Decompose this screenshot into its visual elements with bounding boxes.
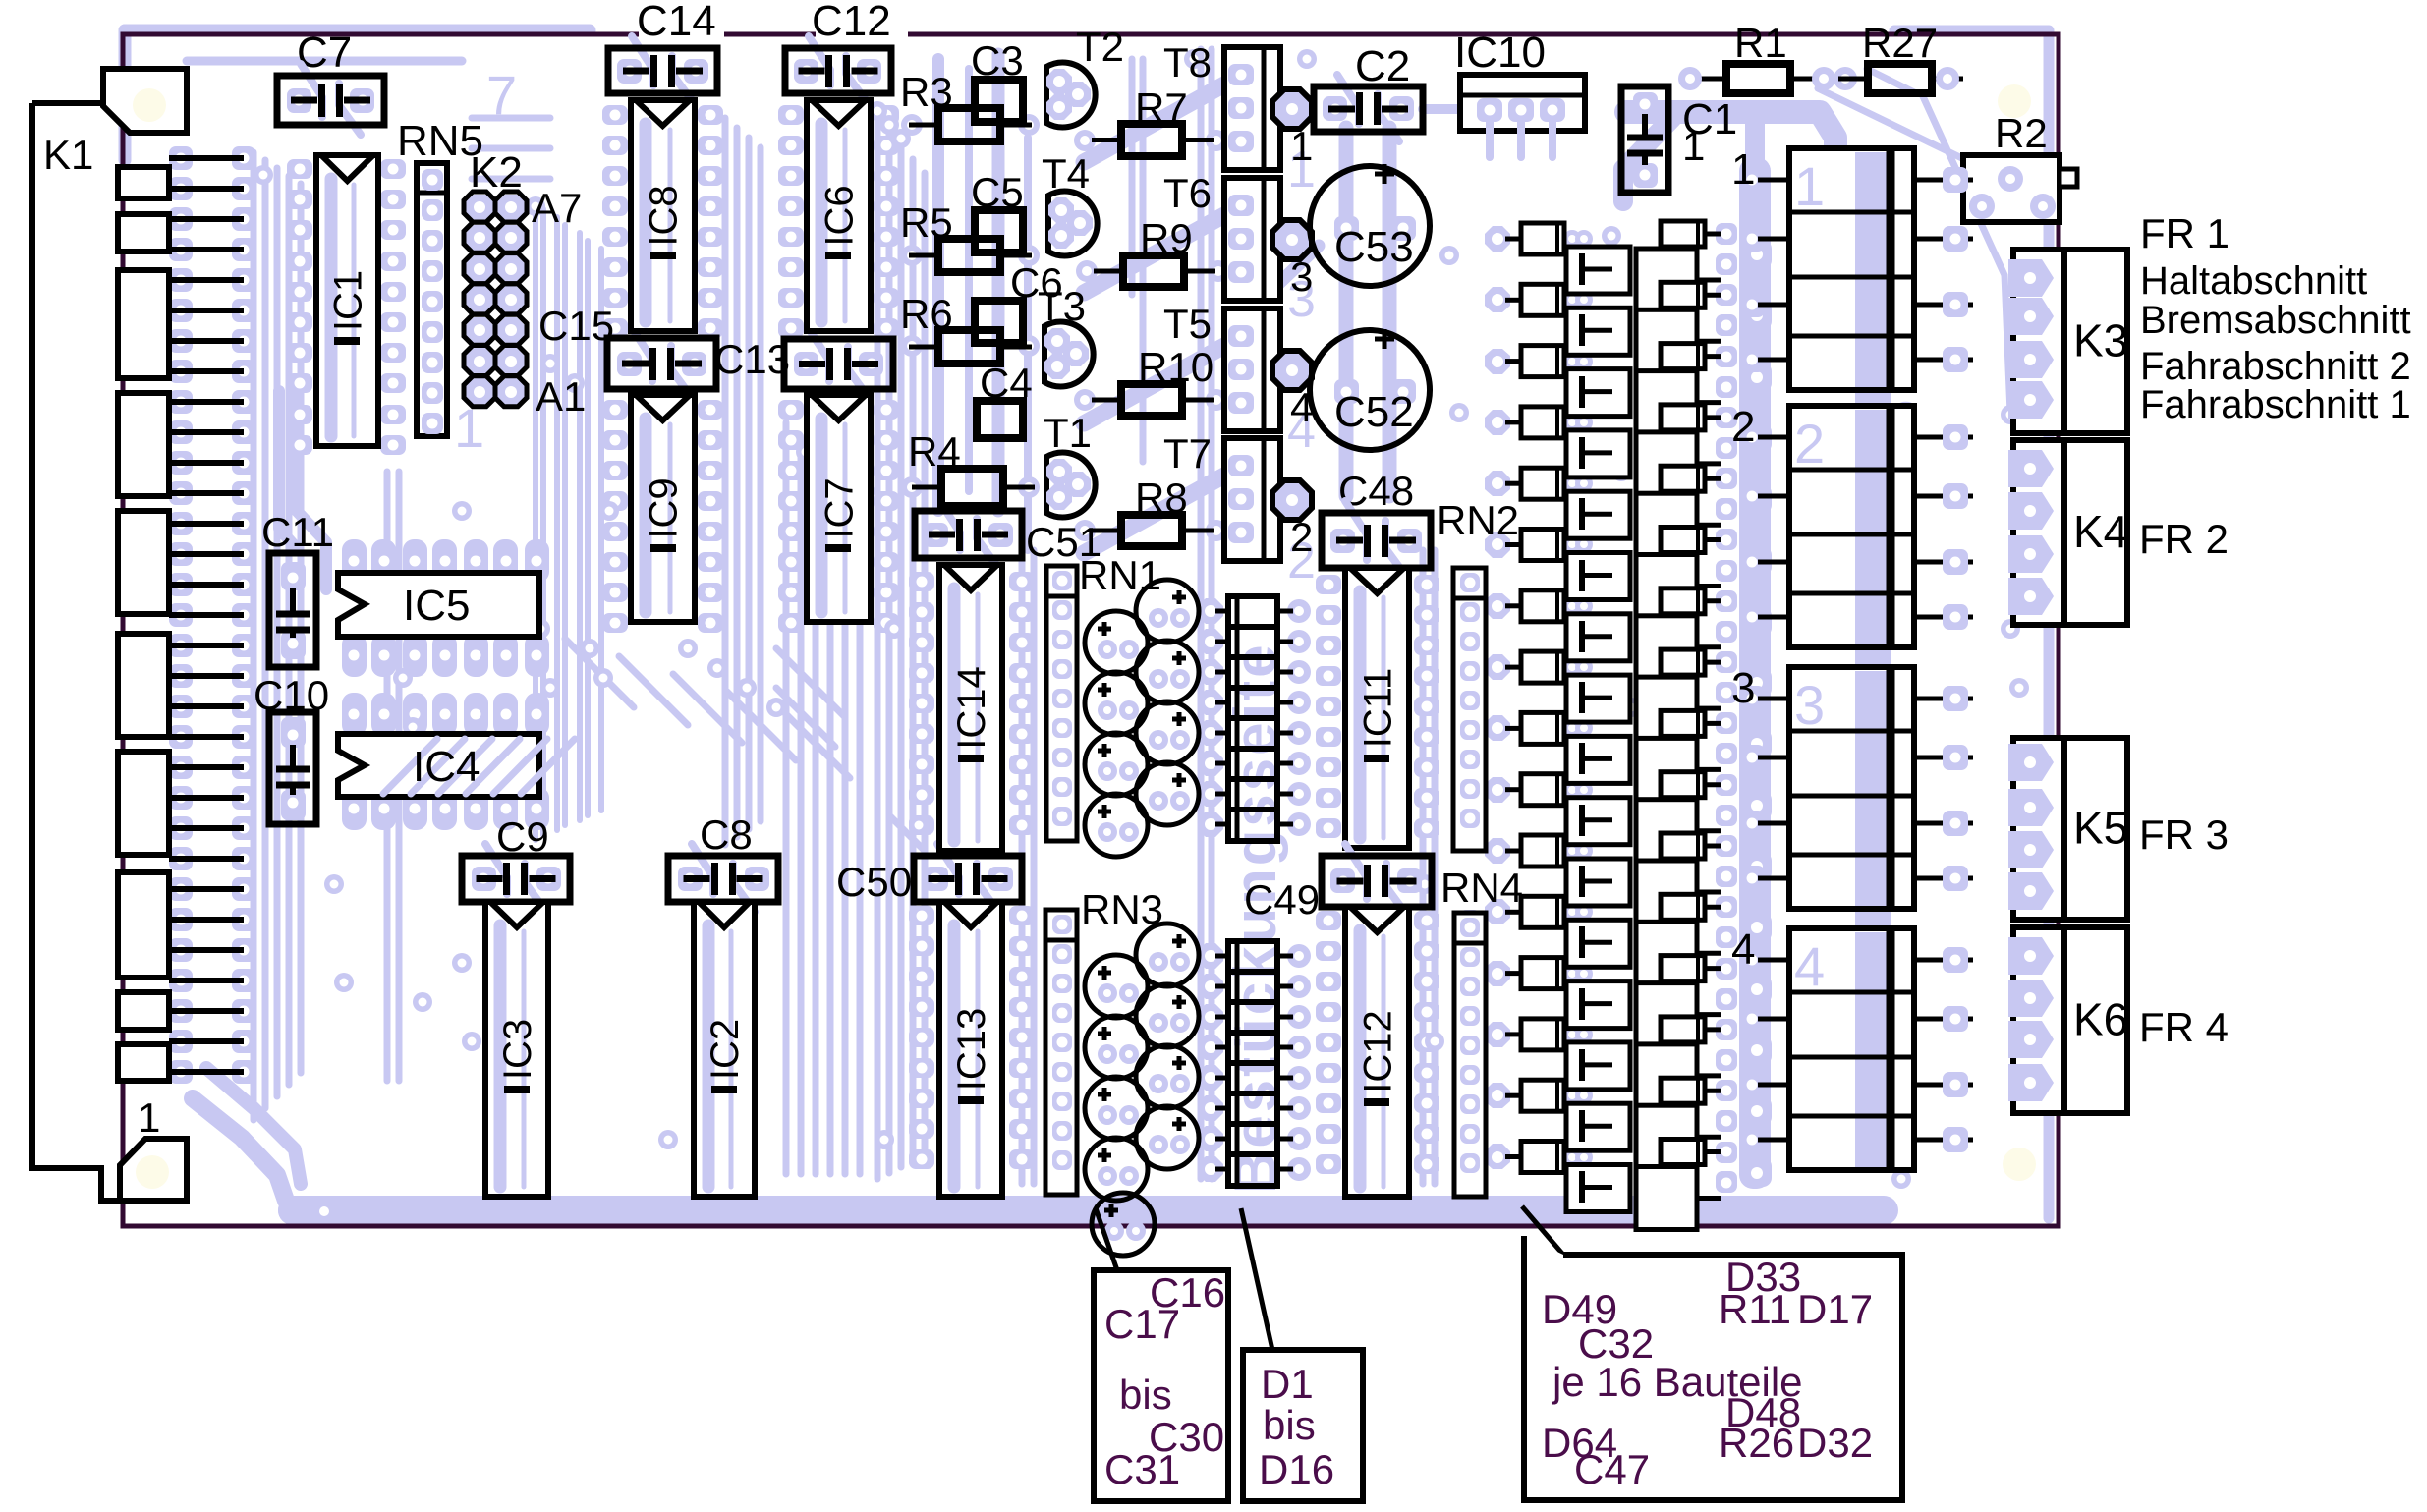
svg-text:R26: R26 bbox=[1719, 1420, 1794, 1466]
svg-text:C11: C11 bbox=[261, 509, 334, 555]
svg-text:K5: K5 bbox=[2073, 803, 2128, 854]
svg-text:A1: A1 bbox=[536, 373, 586, 420]
svg-text:1: 1 bbox=[1682, 123, 1705, 169]
svg-text:FR 2: FR 2 bbox=[2139, 516, 2229, 562]
svg-text:4: 4 bbox=[1731, 925, 1755, 974]
RN1 RN3 pads bbox=[1051, 570, 1073, 591]
IC2 bbox=[694, 902, 755, 1197]
wire - corridor left of IC14/IC13 bbox=[875, 118, 881, 1179]
wire - corridor left of diode column D1-D16 bbox=[1198, 49, 1205, 1179]
relay pin pads bbox=[1739, 167, 1765, 193]
wire - thick vertical strip inside relay boxes bbox=[1855, 155, 1891, 1169]
IC5 and IC4 pad rows bbox=[342, 539, 367, 583]
svg-text:C15: C15 bbox=[538, 303, 614, 349]
svg-text:RN2: RN2 bbox=[1437, 497, 1519, 543]
resistor network RN5 bbox=[417, 163, 447, 436]
svg-text:IC14: IC14 bbox=[950, 666, 993, 750]
wire - vertical traces through C53/C52 bbox=[1339, 128, 1354, 496]
svg-text:T1: T1 bbox=[1044, 410, 1092, 456]
svg-text:K3: K3 bbox=[2073, 315, 2128, 366]
IC14 IC13 pads bbox=[909, 572, 934, 591]
svg-text:RN1: RN1 bbox=[1079, 552, 1161, 598]
svg-text:2: 2 bbox=[1290, 514, 1313, 560]
svg-text:IC13: IC13 bbox=[950, 1008, 993, 1092]
electrolytic capacitors C16-C31 (two clusters) bbox=[1136, 580, 1199, 643]
wire - thick trace C1 to relay band bbox=[1626, 112, 1835, 172]
diode column D1-D16 pads bbox=[1198, 598, 1223, 624]
K2 pads (within cells) bbox=[466, 195, 493, 220]
svg-text:3: 3 bbox=[1290, 253, 1313, 300]
svg-text:3: 3 bbox=[1794, 674, 1825, 736]
connector K1 outline bbox=[32, 103, 120, 1201]
wire - vertical bus through R/C column bbox=[932, 59, 944, 511]
svg-text:1: 1 bbox=[1731, 145, 1755, 194]
wire - verticals near transistor column bbox=[1129, 59, 1136, 295]
svg-text:K1: K1 bbox=[43, 132, 93, 178]
RN5 pads bbox=[421, 168, 444, 192]
IC8 IC9 IC6 IC7 pads bbox=[602, 105, 628, 125]
svg-text:R27: R27 bbox=[1862, 20, 1938, 66]
connector K1 top plug bbox=[103, 69, 187, 133]
wire - traces crossing IC4 bbox=[383, 739, 437, 794]
svg-text:T6: T6 bbox=[1163, 170, 1212, 216]
svg-text:D17: D17 bbox=[1797, 1286, 1873, 1332]
svg-text:3: 3 bbox=[1731, 664, 1755, 712]
IC9 bbox=[631, 395, 695, 622]
svg-text:C50: C50 bbox=[836, 859, 912, 905]
svg-text:4: 4 bbox=[1794, 935, 1825, 997]
wire - diagonals IC7 to IC13 bbox=[776, 648, 845, 717]
svg-text:IC11: IC11 bbox=[1357, 668, 1400, 749]
svg-text:T7: T7 bbox=[1163, 430, 1212, 476]
svg-text:IC7: IC7 bbox=[818, 477, 862, 538]
wire - corridor IC2 to IC13 bbox=[783, 422, 790, 1174]
annotation leader lines bbox=[1096, 1208, 1117, 1270]
svg-text:7: 7 bbox=[486, 64, 517, 126]
annotation box je 16 Bauteile bbox=[1524, 1236, 1902, 1500]
IC6 bbox=[807, 100, 871, 331]
svg-text:C17: C17 bbox=[1104, 1301, 1180, 1347]
capacitor C50 bbox=[937, 844, 959, 894]
wire - thick curve K1 bottom pins to ground bar bbox=[193, 1098, 286, 1201]
svg-text:C47: C47 bbox=[1574, 1446, 1650, 1492]
svg-text:2: 2 bbox=[1731, 403, 1755, 451]
svg-text:Fahrabschnitt 2: Fahrabschnitt 2 bbox=[2140, 345, 2411, 388]
svg-text:1: 1 bbox=[138, 1094, 160, 1141]
capacitor C15 bbox=[631, 326, 652, 381]
svg-text:FR 3: FR 3 bbox=[2139, 812, 2229, 858]
svg-text:FR 4: FR 4 bbox=[2139, 1004, 2229, 1050]
svg-text:K6: K6 bbox=[2073, 994, 2128, 1045]
svg-text:IC8: IC8 bbox=[643, 185, 686, 246]
K3-K6 connector pads bbox=[2008, 259, 2054, 297]
svg-text:D32: D32 bbox=[1797, 1420, 1873, 1466]
svg-text:Haltabschnitt: Haltabschnitt bbox=[2140, 259, 2367, 303]
wire - assorted horizontal traces top-left bbox=[187, 57, 462, 66]
svg-text:C49: C49 bbox=[1244, 876, 1320, 923]
wire - thick pair near C11 bbox=[279, 391, 295, 546]
wire - corridor right of IC1 bbox=[384, 472, 391, 1081]
wire - corridor between IC9 and IC6 columns bbox=[722, 118, 729, 845]
capacitor C1 bbox=[1621, 86, 1668, 193]
svg-text:C52: C52 bbox=[1334, 388, 1414, 436]
svg-text:IC3: IC3 bbox=[496, 1019, 539, 1080]
svg-text:IC5: IC5 bbox=[403, 582, 470, 630]
capacitor C51 bbox=[938, 499, 960, 550]
svg-text:bis: bis bbox=[1263, 1402, 1316, 1448]
wire - corridor right of IC14 bbox=[1019, 550, 1026, 1184]
capacitor C13 bbox=[808, 327, 829, 381]
IC13 bbox=[939, 902, 1002, 1197]
R3-R6/C3-C6 cluster pads bbox=[901, 114, 923, 136]
svg-text:T2: T2 bbox=[1076, 24, 1124, 70]
wire - thick vertical supply trace left of relays bbox=[1739, 157, 1771, 1189]
wire - diagonals near R1/R2 bbox=[1818, 88, 2039, 211]
electrolytic capacitor C53 bbox=[1310, 166, 1430, 286]
electrolytic capacitor C52 bbox=[1310, 330, 1430, 450]
diode column D1-D16 bbox=[1228, 596, 1277, 841]
IC5 bbox=[338, 573, 539, 637]
svg-text:RN4: RN4 bbox=[1440, 865, 1523, 911]
resistor network RN2 bbox=[1453, 568, 1486, 851]
svg-text:IC9: IC9 bbox=[643, 477, 686, 538]
C11 C10 pads bbox=[281, 562, 306, 587]
svg-text:2: 2 bbox=[1794, 413, 1825, 475]
annotation box D1-D16 bbox=[1243, 1350, 1363, 1501]
wire - corridor right of RN2 bbox=[1420, 550, 1427, 1184]
vias bbox=[254, 165, 273, 185]
svg-text:IC12: IC12 bbox=[1357, 1010, 1400, 1093]
middle 16x columns pads bbox=[1485, 226, 1510, 252]
svg-text:1: 1 bbox=[1290, 123, 1313, 169]
IC7 bbox=[807, 395, 871, 622]
R7-R10 lead pads bbox=[1074, 130, 1096, 151]
IC12 bbox=[1345, 907, 1409, 1197]
T8/T6/T5/T7 internal pads bbox=[1228, 64, 1254, 85]
svg-text:K4: K4 bbox=[2073, 506, 2128, 557]
wire - bottom ground bus bar bbox=[278, 1196, 1898, 1225]
svg-text:C13: C13 bbox=[714, 336, 790, 382]
svg-text:A7: A7 bbox=[532, 185, 582, 231]
K1 pins bbox=[169, 155, 244, 161]
svg-text:FR 1: FR 1 bbox=[2140, 210, 2229, 256]
svg-text:C14: C14 bbox=[637, 0, 716, 45]
IC4 bbox=[338, 734, 539, 797]
annotation box C16-C31 bbox=[1094, 1270, 1228, 1501]
svg-text:R2: R2 bbox=[1995, 110, 2048, 156]
svg-text:IC4: IC4 bbox=[413, 743, 480, 791]
IC1 pads bbox=[287, 159, 312, 179]
wire - top border inner trace (right) and right edge run bbox=[1894, 30, 2049, 1218]
IC8 bbox=[631, 100, 695, 331]
svg-text:1: 1 bbox=[1794, 155, 1825, 217]
wire - corridor K1 to IC1 bbox=[251, 152, 257, 1120]
connector K1 bottom plug bbox=[120, 1139, 187, 1201]
IC11 IC12 RN2 RN4 pads bbox=[1316, 575, 1341, 594]
K1 pin group boxes bbox=[118, 167, 169, 198]
wire - corridor left of IC8 column bbox=[533, 201, 538, 840]
svg-text:Fahrabschnitt 1: Fahrabschnitt 1 bbox=[2140, 383, 2411, 426]
IC3 bbox=[485, 902, 548, 1197]
svg-text:IC1: IC1 bbox=[327, 270, 370, 331]
svg-text:R11: R11 bbox=[1719, 1286, 1791, 1332]
IC14 bbox=[939, 565, 1002, 851]
svg-text:IC6: IC6 bbox=[818, 185, 862, 246]
IC U1 - IC1 bbox=[316, 155, 378, 446]
wire - top border inner trace (left) bbox=[125, 25, 590, 37]
IC11 bbox=[1345, 568, 1409, 848]
svg-text:Bremsabschnitt: Bremsabschnitt bbox=[2140, 299, 2411, 342]
svg-text:IC10: IC10 bbox=[1454, 28, 1546, 77]
middle columns: D17-D64 C32-C47 R11-R26 (je 16 Bauteile) bbox=[1521, 223, 1564, 254]
svg-text:R1: R1 bbox=[1734, 20, 1787, 66]
resistor network RN4 bbox=[1454, 913, 1486, 1197]
wire - diagonal traces from T8/T6/T5/T7 to transistors bbox=[1084, 84, 1224, 162]
svg-text:T5: T5 bbox=[1163, 301, 1212, 347]
svg-text:IC2: IC2 bbox=[704, 1019, 747, 1080]
board outline bbox=[123, 34, 2059, 1226]
mounting holes bbox=[1998, 84, 2031, 118]
svg-text:C8: C8 bbox=[700, 812, 753, 858]
svg-text:C53: C53 bbox=[1334, 223, 1414, 271]
K1 pin pads bbox=[169, 146, 193, 170]
connectors K3-K6 bbox=[2013, 250, 2127, 433]
svg-text:C12: C12 bbox=[812, 0, 891, 45]
svg-text:D1: D1 bbox=[1261, 1361, 1314, 1407]
wire - diagonal elbows below IC9/IC7 bbox=[565, 639, 634, 707]
svg-text:bis: bis bbox=[1119, 1372, 1172, 1418]
svg-text:C31: C31 bbox=[1104, 1446, 1180, 1492]
svg-text:T8: T8 bbox=[1163, 39, 1212, 85]
capacitor C6 bbox=[975, 301, 1023, 343]
svg-text:D16: D16 bbox=[1259, 1446, 1334, 1492]
